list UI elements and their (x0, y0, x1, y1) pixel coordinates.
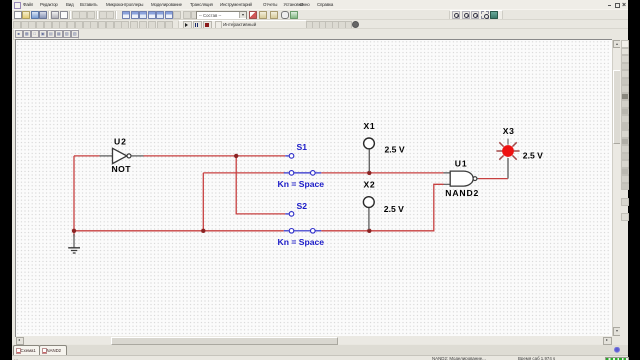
label X1 (364, 121, 376, 131)
label U2 (114, 137, 127, 147)
label X3 (503, 126, 515, 136)
junction: probe X2 on ground bus (367, 229, 371, 233)
svg-text:Kn = Space: Kn = Space (278, 237, 325, 247)
label Kn = Space (S2) (278, 237, 325, 247)
menu bar (12, 0, 628, 9)
svg-text:Kn = Space: Kn = Space (278, 179, 325, 189)
zoom toolbar group (449, 10, 503, 21)
vertical scrollbar (612, 40, 621, 337)
wire: NOT input net from inverter input down and to ground (74, 156, 100, 237)
svg-text:NOT: NOT (112, 164, 132, 174)
ground (68, 234, 80, 253)
svg-text:S1: S1 (297, 142, 308, 152)
svg-text:X2: X2 (364, 179, 376, 189)
status bar (12, 355, 628, 360)
simulation buttons group (178, 20, 234, 30)
wire: S1 common branch down to ground bus (203, 173, 284, 231)
toolbar row 1 (12, 9, 628, 20)
svg-text:U2: U2 (114, 137, 127, 147)
svg-text:X3: X3 (503, 126, 515, 136)
junction: NOT output net branch (234, 154, 238, 158)
wire: bottom ground bus right segment to NAND lower input (321, 184, 443, 231)
svg-text:2.5 V: 2.5 V (523, 151, 543, 161)
label S2 (297, 201, 308, 211)
junction: probe X1 on S1 output net (367, 171, 371, 175)
svg-text:2.5 V: 2.5 V (384, 204, 404, 214)
label NAND2 (445, 188, 479, 198)
wire: NAND output net to lamp X3 (479, 178, 509, 180)
svg-text:2.5 V: 2.5 V (385, 145, 405, 155)
svg-text:X1: X1 (364, 121, 376, 131)
wire: NOT output net to S1 upper throw (144, 155, 286, 157)
wire: S1 output net to NAND upper input (through probe X1 node) (321, 172, 443, 174)
label 2.5 V (X1) (385, 145, 405, 155)
label Kn = Space (S1) (278, 179, 325, 189)
lamp X3 (496, 139, 519, 179)
NAND gate U1 (444, 171, 479, 186)
label S1 (297, 142, 308, 152)
label X2 (364, 179, 376, 189)
canvas area (15, 39, 612, 338)
probe X1 (364, 138, 375, 172)
inverter U2 (100, 148, 144, 163)
label U1 (455, 159, 468, 169)
toolbar row 2 (12, 19, 628, 29)
wire: bottom ground bus left segment (74, 230, 284, 232)
probe X2 (363, 197, 374, 230)
switch S1 (284, 154, 322, 176)
junction: S1 common at ground bus (201, 229, 205, 233)
svg-text:U1: U1 (455, 159, 468, 169)
label NOT (112, 164, 132, 174)
toolbar row 3 (12, 28, 628, 39)
svg-text:S2: S2 (297, 201, 308, 211)
blue logo icon (613, 347, 621, 354)
wire: branch from NOT output net down to S2 upper throw (236, 156, 285, 214)
junction: ground bus at left vertical (72, 229, 76, 233)
horizontal scrollbar (16, 336, 612, 344)
label 2.5 V (X2) (384, 204, 404, 214)
switch S2 (284, 212, 322, 234)
svg-text:NAND2: NAND2 (445, 188, 479, 198)
right instruments toolbar (620, 38, 628, 345)
tab bar (12, 345, 628, 356)
label 2.5 V (X3) (523, 151, 543, 161)
